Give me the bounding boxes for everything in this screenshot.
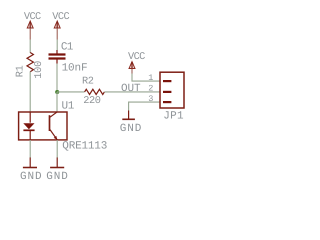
supply VCC symbol 1 (arrow) xyxy=(27,21,33,40)
wire JP1 pin 3 to GND xyxy=(129,102,160,110)
resistor R2 xyxy=(85,89,105,94)
capacitor C1 xyxy=(49,50,66,64)
svg-text:VCC: VCC xyxy=(24,11,41,23)
svg-text:GND: GND xyxy=(120,123,143,135)
wire emitter to GND xyxy=(56,140,58,158)
resistor R1 xyxy=(27,53,33,72)
connector JP1 pin stubs xyxy=(163,81,171,102)
svg-text:VCC: VCC xyxy=(52,11,69,23)
svg-text:10nF: 10nF xyxy=(62,63,88,75)
wire VCC to C1 xyxy=(56,40,58,51)
wire R1 to optocoupler anode xyxy=(29,72,31,113)
svg-text:QRE1113: QRE1113 xyxy=(62,140,107,152)
wire junction to collector xyxy=(56,92,58,112)
opto-coupler U1 body xyxy=(19,112,67,140)
phototransistor inside U1 xyxy=(50,112,58,140)
svg-text:2: 2 xyxy=(148,83,153,93)
svg-text:U1: U1 xyxy=(62,100,75,112)
svg-text:GND: GND xyxy=(46,171,69,183)
wire junction to R2 xyxy=(57,91,85,93)
wire VCC to JP1 pin 1 xyxy=(132,74,160,82)
svg-text:JP1: JP1 xyxy=(163,111,184,123)
ground symbol right xyxy=(122,111,135,120)
svg-text:C1: C1 xyxy=(61,41,74,53)
svg-text:OUT: OUT xyxy=(121,83,141,95)
wire LED cathode to GND xyxy=(29,140,31,158)
LED inside U1 xyxy=(23,112,34,140)
wire VCC to R1 xyxy=(29,40,31,54)
ground symbol left xyxy=(23,158,37,168)
ground symbol middle xyxy=(50,158,64,168)
svg-text:R2: R2 xyxy=(82,76,94,88)
svg-text:R1: R1 xyxy=(15,65,27,77)
svg-text:3: 3 xyxy=(148,94,153,104)
wire C1 to junction xyxy=(56,64,58,92)
svg-text:100: 100 xyxy=(33,61,45,79)
svg-text:220: 220 xyxy=(83,95,101,107)
svg-text:GND: GND xyxy=(20,171,43,183)
junction dot xyxy=(55,90,59,94)
supply VCC symbol 2 (arrow) xyxy=(54,21,60,40)
svg-text:1: 1 xyxy=(148,73,153,83)
wire R2 to JP1 pin 2, net OUT xyxy=(104,91,160,93)
svg-text:VCC: VCC xyxy=(128,51,145,63)
connector JP1 body xyxy=(160,72,184,108)
supply VCC symbol 3 (arrow) xyxy=(129,62,135,74)
